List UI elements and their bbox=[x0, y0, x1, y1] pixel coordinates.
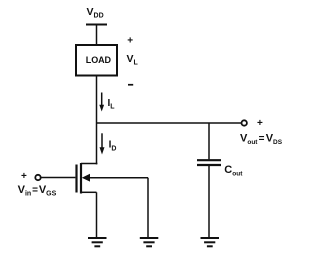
svg-text:+: + bbox=[21, 171, 27, 182]
svg-text:VL: VL bbox=[127, 53, 139, 67]
svg-text:+: + bbox=[127, 36, 133, 47]
svg-text:IL: IL bbox=[108, 98, 116, 111]
svg-text:Vin=VGS: Vin=VGS bbox=[18, 184, 57, 198]
svg-text:VDD: VDD bbox=[87, 6, 104, 20]
svg-text:LOAD: LOAD bbox=[86, 55, 112, 65]
svg-text:ID: ID bbox=[109, 140, 117, 153]
svg-text:Cout: Cout bbox=[224, 164, 243, 178]
svg-text:+: + bbox=[257, 118, 263, 129]
svg-text:Vout=VDS: Vout=VDS bbox=[240, 133, 283, 147]
